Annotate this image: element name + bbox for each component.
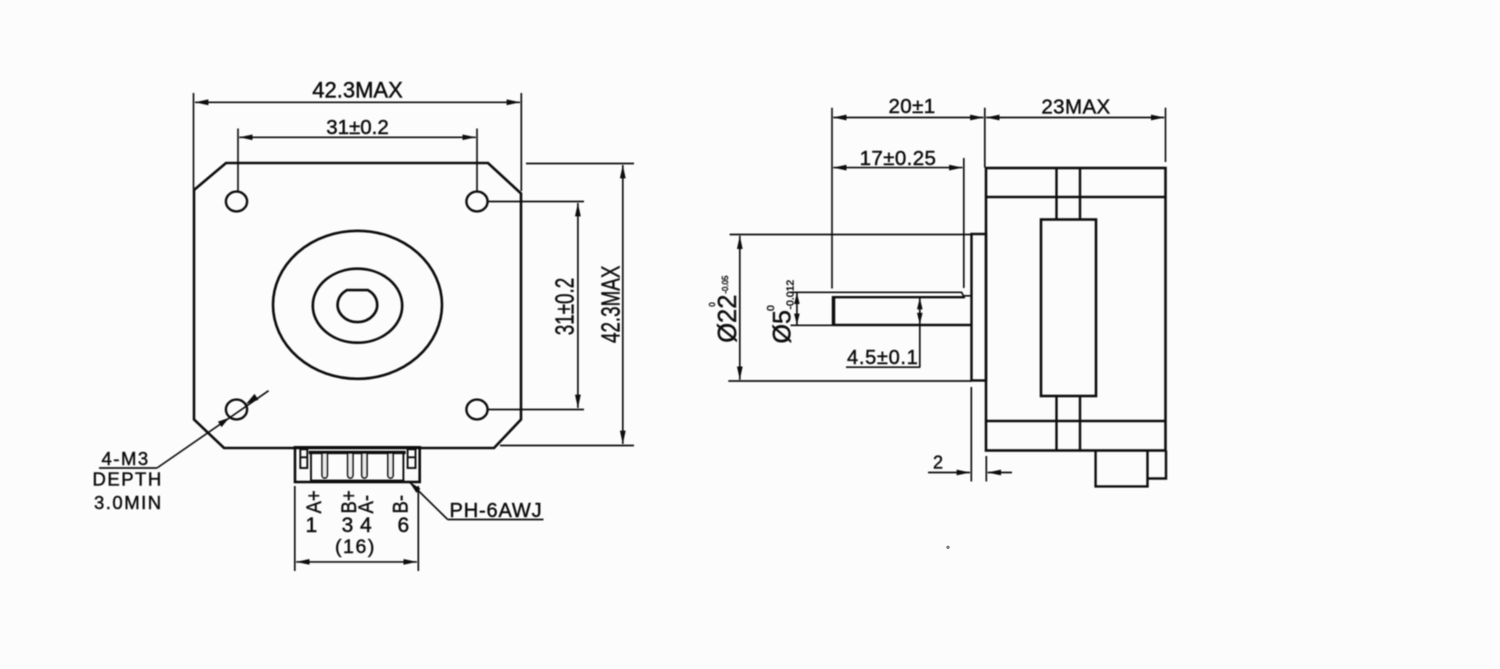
dimension Ø5 [796,293,798,325]
svg-text:Ø22: Ø22 [714,295,742,343]
svg-text:4-M3: 4-M3 [102,448,150,469]
connector left clip [300,449,307,468]
Ø5 bottom extension [791,324,835,326]
dimension 20±1 [832,108,985,289]
pin label B+ [338,490,361,513]
pilot circle [313,269,402,343]
svg-text:31±0.2: 31±0.2 [326,116,389,139]
svg-text:23MAX: 23MAX [1041,96,1110,119]
shaft column bottom [1057,396,1081,451]
dimension 2 [928,387,1012,482]
shaft circle with flat [338,290,378,322]
svg-text:4: 4 [360,514,372,537]
dimension 42.3MAX horizontal [194,93,522,191]
connector inner housing [311,452,403,481]
side view body outline [986,168,1166,451]
pin label A+ [303,490,326,513]
svg-text:3.0MIN: 3.0MIN [94,492,163,513]
scan speck [946,546,949,549]
connector right clip [408,449,416,468]
dimension 4.5±0.1 [846,298,920,367]
svg-text:A+: A+ [303,490,326,513]
connector pin 3 [348,454,353,478]
svg-text:42.3MAX: 42.3MAX [595,266,625,343]
svg-text:4.5±0.1: 4.5±0.1 [847,347,918,369]
connector pin 6 [388,454,393,478]
dimension 31±0.2 horizontal [238,129,477,192]
leader to bottom-left hole [99,391,269,468]
connector front view outer [295,447,420,482]
label 4-M3 DEPTH 3.0MIN [93,448,163,513]
mounting hole top-right [466,192,487,212]
pilot boss side view [972,234,987,381]
mounting hole top-left [226,192,247,212]
rotor rectangle [1041,220,1096,397]
connector pin 4 [362,454,367,478]
svg-text:0: 0 [708,302,717,307]
connector pin 1 [322,454,327,478]
shaft full-diameter line / Ø5 top extension [791,292,971,296]
front end-cap line [986,196,1166,198]
svg-text:2: 2 [933,452,943,472]
svg-text:(16): (16) [335,536,376,558]
svg-text:17±0.25: 17±0.25 [860,147,937,170]
svg-text:6: 6 [397,514,409,537]
svg-text:1: 1 [305,514,317,537]
dimension Ø22 [728,235,971,382]
svg-text:0: 0 [765,305,777,311]
dimension 23MAX [986,108,1165,162]
side connector [1096,451,1166,487]
mounting hole bottom-left [226,400,247,420]
dimension 17±0.25 [833,158,964,288]
shaft side view [834,296,965,298]
svg-text:-0.012: -0.012 [785,280,797,310]
svg-text:B-: B- [389,495,412,513]
dimension 31±0.2 vertical [488,202,584,410]
svg-text:20±1: 20±1 [888,95,935,118]
svg-text:42.3MAX: 42.3MAX [312,78,403,103]
dimension 42.3MAX vertical [500,164,634,446]
front bearing boss circle [273,231,442,379]
svg-text:31±0.2: 31±0.2 [549,278,579,335]
mounting hole bottom-right [466,400,487,420]
svg-text:-0.05: -0.05 [721,275,730,294]
rear end-cap line [986,420,1166,422]
svg-text:A-: A- [355,495,378,513]
shaft column top [1057,168,1081,220]
motor body front view outline [194,163,521,448]
svg-text:DEPTH: DEPTH [93,469,163,490]
svg-text:3: 3 [342,514,354,537]
pin label A- [355,495,378,513]
svg-text:Ø5: Ø5 [769,310,797,343]
pin label B- [389,495,412,513]
